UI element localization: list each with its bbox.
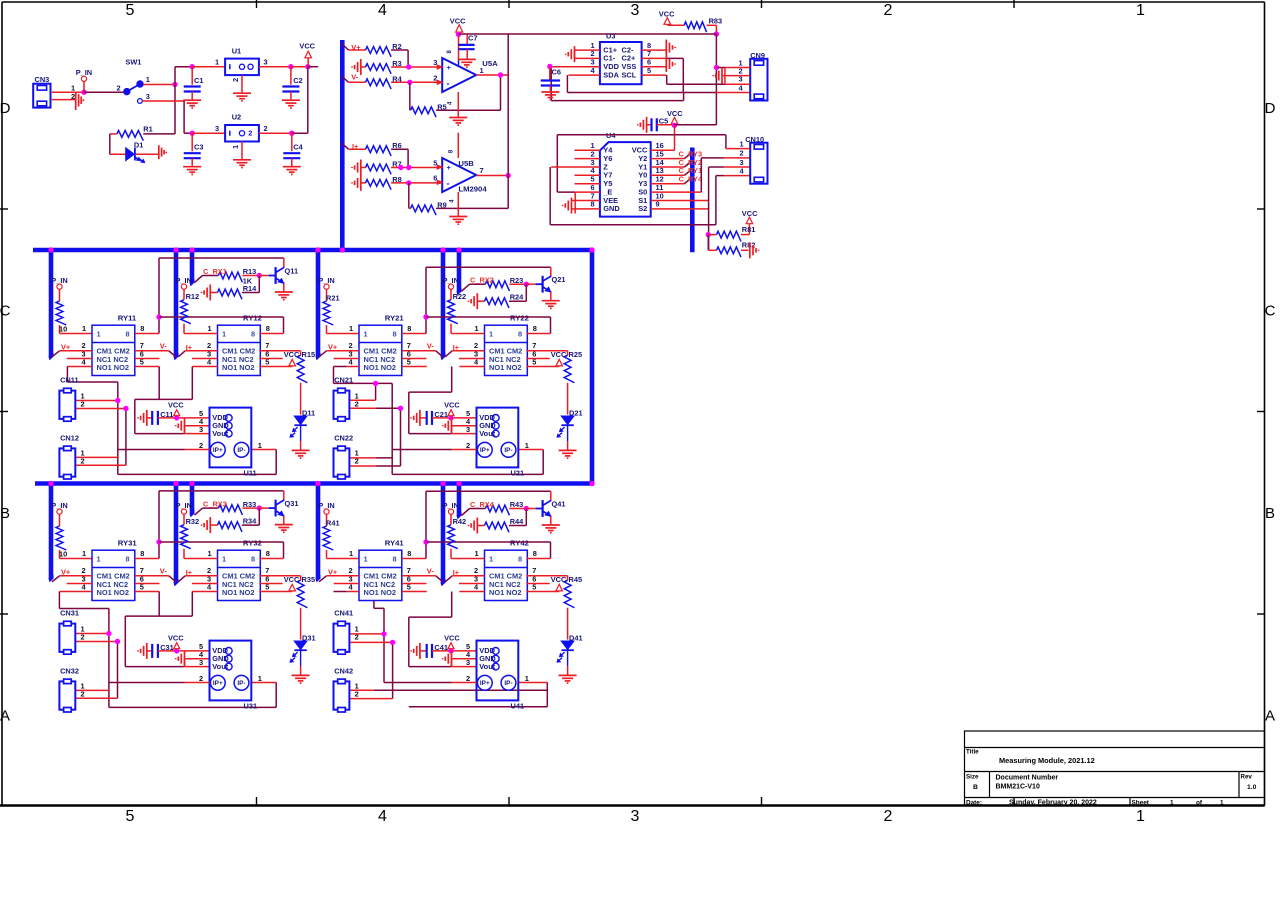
- svg-text:RY22: RY22: [510, 314, 529, 323]
- svg-text:U2: U2: [232, 113, 241, 122]
- svg-text:R34: R34: [243, 517, 257, 526]
- svg-text:R83: R83: [709, 16, 723, 25]
- svg-text:CN41: CN41: [334, 608, 353, 617]
- svg-text:IP+: IP+: [480, 447, 490, 454]
- svg-text:8: 8: [518, 329, 522, 338]
- svg-text:C21: C21: [434, 410, 448, 419]
- svg-text:C41: C41: [434, 643, 448, 652]
- svg-text:2: 2: [81, 400, 85, 409]
- svg-text:A: A: [1265, 708, 1275, 725]
- svg-text:VCC: VCC: [299, 42, 315, 51]
- svg-text:V-: V-: [160, 566, 168, 575]
- svg-text:10: 10: [59, 549, 67, 558]
- svg-text:U3: U3: [606, 31, 615, 40]
- svg-text:Q31: Q31: [285, 499, 299, 508]
- svg-text:2: 2: [355, 689, 359, 698]
- svg-text:3: 3: [199, 425, 203, 434]
- svg-text:-: -: [447, 179, 450, 189]
- svg-text:R35: R35: [302, 575, 316, 584]
- svg-text:2: 2: [81, 456, 85, 465]
- svg-text:4: 4: [378, 808, 387, 825]
- svg-text:U41: U41: [511, 702, 525, 711]
- svg-text:RY41: RY41: [385, 539, 405, 548]
- svg-text:2: 2: [117, 84, 121, 93]
- svg-text:1: 1: [1170, 799, 1174, 806]
- svg-text:C2: C2: [293, 76, 302, 85]
- svg-text:IP+: IP+: [480, 680, 490, 687]
- svg-text:NO1 NO2: NO1 NO2: [364, 588, 396, 597]
- svg-text:1: 1: [222, 554, 226, 563]
- svg-text:8: 8: [393, 554, 397, 563]
- svg-text:IP-: IP-: [237, 447, 245, 454]
- svg-text:8: 8: [266, 324, 270, 333]
- svg-text:R1: R1: [143, 124, 152, 133]
- svg-text:1: 1: [525, 674, 529, 683]
- svg-text:C5: C5: [659, 117, 668, 126]
- svg-text:8: 8: [251, 329, 255, 338]
- svg-text:C6: C6: [552, 67, 561, 76]
- svg-text:R15: R15: [302, 350, 316, 359]
- svg-text:NO1 NO2: NO1 NO2: [489, 588, 521, 597]
- svg-text:2: 2: [264, 124, 268, 133]
- svg-text:3: 3: [146, 92, 150, 101]
- svg-text:1: 1: [1136, 808, 1145, 825]
- svg-text:R23: R23: [510, 276, 524, 285]
- svg-text:V+: V+: [328, 342, 338, 351]
- svg-text:D21: D21: [569, 409, 583, 418]
- svg-text:5: 5: [126, 2, 135, 19]
- svg-text:V+: V+: [61, 342, 71, 351]
- svg-text:Sunday, February 20, 2022: Sunday, February 20, 2022: [1009, 799, 1097, 806]
- svg-text:1: 1: [1220, 799, 1224, 806]
- svg-text:Size: Size: [966, 774, 979, 781]
- svg-text:CN42: CN42: [334, 666, 353, 675]
- svg-text:2: 2: [355, 633, 359, 642]
- svg-text:RY31: RY31: [118, 539, 138, 548]
- svg-text:3: 3: [466, 425, 470, 434]
- svg-text:RY42: RY42: [510, 539, 529, 548]
- svg-text:1: 1: [82, 324, 86, 333]
- svg-text:RY12: RY12: [243, 314, 262, 323]
- svg-text:1: 1: [489, 554, 493, 563]
- svg-text:10: 10: [59, 324, 67, 333]
- svg-text:U31: U31: [244, 702, 258, 711]
- svg-text:8: 8: [393, 329, 397, 338]
- svg-text:CN22: CN22: [334, 433, 353, 442]
- svg-text:U4: U4: [606, 131, 616, 140]
- svg-text:GND: GND: [603, 204, 620, 213]
- svg-text:R13: R13: [243, 267, 257, 276]
- svg-text:8: 8: [126, 329, 130, 338]
- svg-text:1: 1: [97, 554, 101, 563]
- svg-text:CN21: CN21: [334, 375, 353, 384]
- svg-text:U1: U1: [232, 46, 241, 55]
- svg-text:5: 5: [126, 808, 135, 825]
- svg-text:1: 1: [364, 554, 368, 563]
- svg-text:R22: R22: [453, 292, 467, 301]
- svg-text:V-: V-: [351, 73, 359, 82]
- svg-text:I+: I+: [453, 568, 460, 577]
- svg-text:C4: C4: [293, 142, 303, 151]
- svg-text:C: C: [0, 303, 11, 320]
- svg-text:V-: V-: [427, 341, 435, 350]
- svg-text:+: +: [447, 163, 452, 172]
- svg-text:3: 3: [739, 75, 743, 84]
- svg-text:CN3: CN3: [35, 75, 50, 84]
- svg-text:2: 2: [466, 674, 470, 683]
- svg-text:SW1: SW1: [125, 58, 141, 67]
- svg-text:2: 2: [355, 400, 359, 409]
- svg-text:2: 2: [466, 441, 470, 450]
- svg-text:C_RX2: C_RX2: [470, 276, 494, 285]
- svg-text:C_RX1: C_RX1: [203, 267, 227, 276]
- svg-text:U5A: U5A: [482, 59, 498, 68]
- svg-text:NO1 NO2: NO1 NO2: [489, 363, 521, 372]
- svg-text:1: 1: [258, 674, 262, 683]
- svg-text:CN12: CN12: [60, 433, 79, 442]
- svg-text:VCC: VCC: [168, 633, 184, 642]
- svg-text:D1: D1: [134, 140, 143, 149]
- svg-text:8: 8: [518, 554, 522, 563]
- svg-text:8: 8: [140, 549, 144, 558]
- svg-text:VCC: VCC: [742, 209, 758, 218]
- svg-text:2: 2: [199, 674, 203, 683]
- svg-text:CN11: CN11: [60, 375, 79, 384]
- svg-text:VCC: VCC: [667, 109, 683, 118]
- svg-text:V+: V+: [328, 567, 338, 576]
- svg-text:1: 1: [146, 75, 150, 84]
- svg-text:SCL: SCL: [622, 70, 637, 79]
- svg-text:1: 1: [525, 441, 529, 450]
- svg-text:1.0: 1.0: [1247, 784, 1257, 791]
- svg-text:8: 8: [533, 549, 537, 558]
- svg-text:Document Number: Document Number: [996, 775, 1059, 782]
- svg-text:-: -: [447, 79, 450, 89]
- svg-text:8: 8: [251, 554, 255, 563]
- svg-text:R21: R21: [326, 294, 340, 303]
- svg-text:1: 1: [475, 324, 479, 333]
- svg-text:3: 3: [199, 658, 203, 667]
- svg-text:LM2904: LM2904: [458, 185, 487, 194]
- svg-text:Date:: Date:: [966, 799, 982, 806]
- svg-text:1: 1: [480, 66, 484, 75]
- svg-text:B: B: [0, 505, 10, 522]
- svg-text:C_RY4: C_RY4: [679, 175, 703, 184]
- svg-text:C31: C31: [160, 643, 174, 652]
- svg-text:IP+: IP+: [213, 447, 223, 454]
- svg-text:2: 2: [231, 78, 240, 82]
- svg-text:VCC: VCC: [444, 633, 460, 642]
- svg-text:A: A: [0, 708, 10, 725]
- svg-text:8: 8: [533, 324, 537, 333]
- svg-text:R32: R32: [186, 517, 200, 526]
- svg-text:1: 1: [349, 549, 353, 558]
- svg-text:D31: D31: [302, 634, 316, 643]
- svg-text:2: 2: [740, 149, 744, 158]
- svg-text:1: 1: [364, 329, 368, 338]
- svg-text:4: 4: [378, 2, 387, 19]
- svg-text:Rev: Rev: [1241, 774, 1253, 781]
- svg-text:1: 1: [97, 329, 101, 338]
- svg-text:1: 1: [489, 329, 493, 338]
- svg-text:U21: U21: [511, 469, 525, 478]
- svg-text:B: B: [973, 784, 978, 791]
- svg-text:3: 3: [466, 658, 470, 667]
- svg-text:RY11: RY11: [118, 314, 137, 323]
- svg-text:C_RX3: C_RX3: [203, 499, 227, 508]
- svg-text:U11: U11: [244, 469, 257, 478]
- svg-text:8: 8: [140, 324, 144, 333]
- svg-text:I+: I+: [186, 343, 193, 352]
- svg-text:3: 3: [631, 2, 640, 19]
- svg-text:1: 1: [82, 549, 86, 558]
- svg-text:NO1 NO2: NO1 NO2: [97, 588, 129, 597]
- svg-text:VCC: VCC: [551, 350, 567, 359]
- svg-text:NO1 NO2: NO1 NO2: [364, 363, 396, 372]
- svg-text:1: 1: [208, 549, 212, 558]
- svg-text:Q21: Q21: [552, 275, 566, 284]
- svg-text:3: 3: [631, 808, 640, 825]
- svg-text:Q41: Q41: [552, 500, 566, 509]
- svg-text:D11: D11: [302, 409, 315, 418]
- svg-text:8: 8: [266, 549, 270, 558]
- svg-text:3: 3: [215, 124, 219, 133]
- svg-text:B: B: [1265, 505, 1275, 522]
- svg-text:8: 8: [407, 324, 411, 333]
- svg-text:NO1 NO2: NO1 NO2: [97, 363, 129, 372]
- svg-text:VCC: VCC: [450, 17, 466, 26]
- svg-text:2: 2: [81, 633, 85, 642]
- svg-text:R41: R41: [326, 519, 340, 528]
- svg-text:V-: V-: [427, 566, 435, 575]
- svg-text:R25: R25: [569, 350, 583, 359]
- svg-text:SDA: SDA: [603, 70, 619, 79]
- svg-text:C1: C1: [194, 76, 203, 85]
- svg-text:1: 1: [231, 145, 240, 149]
- svg-text:+: +: [447, 63, 452, 72]
- svg-text:D41: D41: [569, 634, 583, 643]
- svg-text:BMM21C-V10: BMM21C-V10: [996, 784, 1040, 791]
- svg-text:I+: I+: [453, 343, 460, 352]
- svg-text:R44: R44: [510, 517, 524, 526]
- svg-text:VCC: VCC: [168, 400, 184, 409]
- svg-text:1: 1: [208, 324, 212, 333]
- svg-text:2: 2: [199, 441, 203, 450]
- svg-text:8: 8: [407, 549, 411, 558]
- svg-text:C3: C3: [194, 142, 203, 151]
- svg-text:IP+: IP+: [213, 680, 223, 687]
- svg-text:1: 1: [475, 549, 479, 558]
- svg-text:1: 1: [1136, 2, 1145, 19]
- svg-text:D: D: [1265, 100, 1276, 117]
- svg-text:IP-: IP-: [504, 680, 512, 687]
- svg-text:2: 2: [884, 808, 893, 825]
- svg-text:VCC: VCC: [444, 400, 460, 409]
- svg-text:R81: R81: [742, 225, 756, 234]
- svg-text:C: C: [1265, 303, 1276, 320]
- svg-text:1: 1: [222, 329, 226, 338]
- svg-text:V-: V-: [160, 341, 168, 350]
- svg-text:C_RX4: C_RX4: [470, 500, 495, 509]
- svg-text:IP-: IP-: [504, 447, 512, 454]
- svg-text:1: 1: [215, 58, 219, 67]
- svg-text:R33: R33: [243, 500, 257, 509]
- svg-text:D: D: [0, 100, 11, 117]
- svg-text:Measuring Module, 2021.12: Measuring Module, 2021.12: [999, 756, 1095, 765]
- svg-text:1: 1: [740, 139, 744, 148]
- svg-text:Sheet: Sheet: [1132, 799, 1150, 806]
- svg-text:NO1 NO2: NO1 NO2: [222, 363, 254, 372]
- svg-text:IP-: IP-: [237, 680, 245, 687]
- svg-text:R24: R24: [510, 293, 524, 302]
- svg-text:Q11: Q11: [285, 267, 299, 276]
- svg-text:RY21: RY21: [385, 314, 405, 323]
- svg-text:7: 7: [480, 166, 484, 175]
- svg-text:1: 1: [349, 324, 353, 333]
- svg-text:1: 1: [258, 441, 262, 450]
- svg-text:VCC: VCC: [284, 575, 300, 584]
- svg-text:Title: Title: [966, 749, 979, 756]
- svg-text:NO1 NO2: NO1 NO2: [222, 588, 254, 597]
- svg-text:2: 2: [81, 689, 85, 698]
- svg-text:VCC: VCC: [551, 575, 567, 584]
- svg-text:RY32: RY32: [243, 539, 262, 548]
- svg-text:V+: V+: [61, 567, 71, 576]
- svg-text:U5B: U5B: [458, 159, 474, 168]
- svg-text:I+: I+: [186, 568, 193, 577]
- svg-text:C11: C11: [160, 410, 173, 419]
- svg-text:8: 8: [126, 554, 130, 563]
- svg-text:2: 2: [355, 456, 359, 465]
- svg-text:R42: R42: [453, 517, 467, 526]
- svg-text:2: 2: [248, 129, 252, 138]
- svg-text:of: of: [1196, 799, 1203, 806]
- svg-text:CN32: CN32: [60, 666, 79, 675]
- svg-text:3: 3: [264, 58, 268, 67]
- svg-text:R43: R43: [510, 500, 524, 509]
- svg-text:R12: R12: [186, 292, 200, 301]
- svg-text:S2: S2: [638, 204, 647, 213]
- svg-text:R14: R14: [243, 284, 257, 293]
- svg-text:2: 2: [884, 2, 893, 19]
- svg-text:CN31: CN31: [60, 608, 79, 617]
- svg-text:VCC: VCC: [284, 350, 300, 359]
- svg-text:R45: R45: [569, 575, 583, 584]
